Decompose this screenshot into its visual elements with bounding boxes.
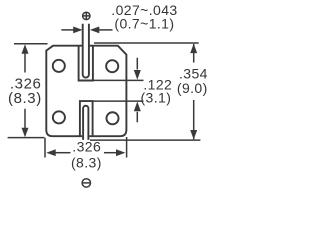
svg-text:(8.3): (8.3)	[71, 154, 102, 170]
svg-text:.326: .326	[72, 139, 101, 155]
svg-text:(3.1): (3.1)	[141, 89, 172, 105]
svg-text:(9.0): (9.0)	[177, 80, 208, 96]
svg-text:(8.3): (8.3)	[8, 90, 42, 107]
svg-text:(0.7~1.1): (0.7~1.1)	[114, 15, 174, 31]
